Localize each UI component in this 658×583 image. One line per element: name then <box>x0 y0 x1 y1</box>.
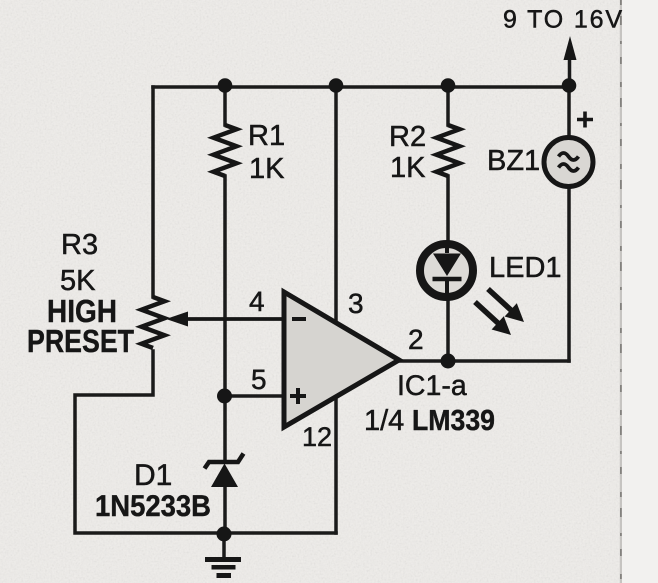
svg-text:R2: R2 <box>389 121 426 153</box>
svg-text:1N5233B: 1N5233B <box>95 490 211 523</box>
svg-text:4: 4 <box>249 286 265 317</box>
svg-text:BZ1: BZ1 <box>487 145 540 177</box>
svg-text:D1: D1 <box>134 459 172 492</box>
svg-text:PRESET: PRESET <box>27 323 134 359</box>
svg-text:R3: R3 <box>61 229 98 261</box>
svg-text:2: 2 <box>408 324 424 355</box>
svg-text:R1: R1 <box>248 120 285 152</box>
svg-text:LM339: LM339 <box>412 405 495 437</box>
svg-text:3: 3 <box>348 288 364 319</box>
svg-text:5: 5 <box>251 364 267 395</box>
svg-text:12: 12 <box>302 422 332 452</box>
svg-text:1K: 1K <box>249 153 285 185</box>
svg-text:1/4: 1/4 <box>364 405 404 437</box>
svg-text:LED1: LED1 <box>489 252 562 284</box>
svg-text:IC1-a: IC1-a <box>397 370 467 402</box>
svg-text:9 TO 16V: 9 TO 16V <box>503 6 622 34</box>
svg-text:1K: 1K <box>390 152 426 184</box>
